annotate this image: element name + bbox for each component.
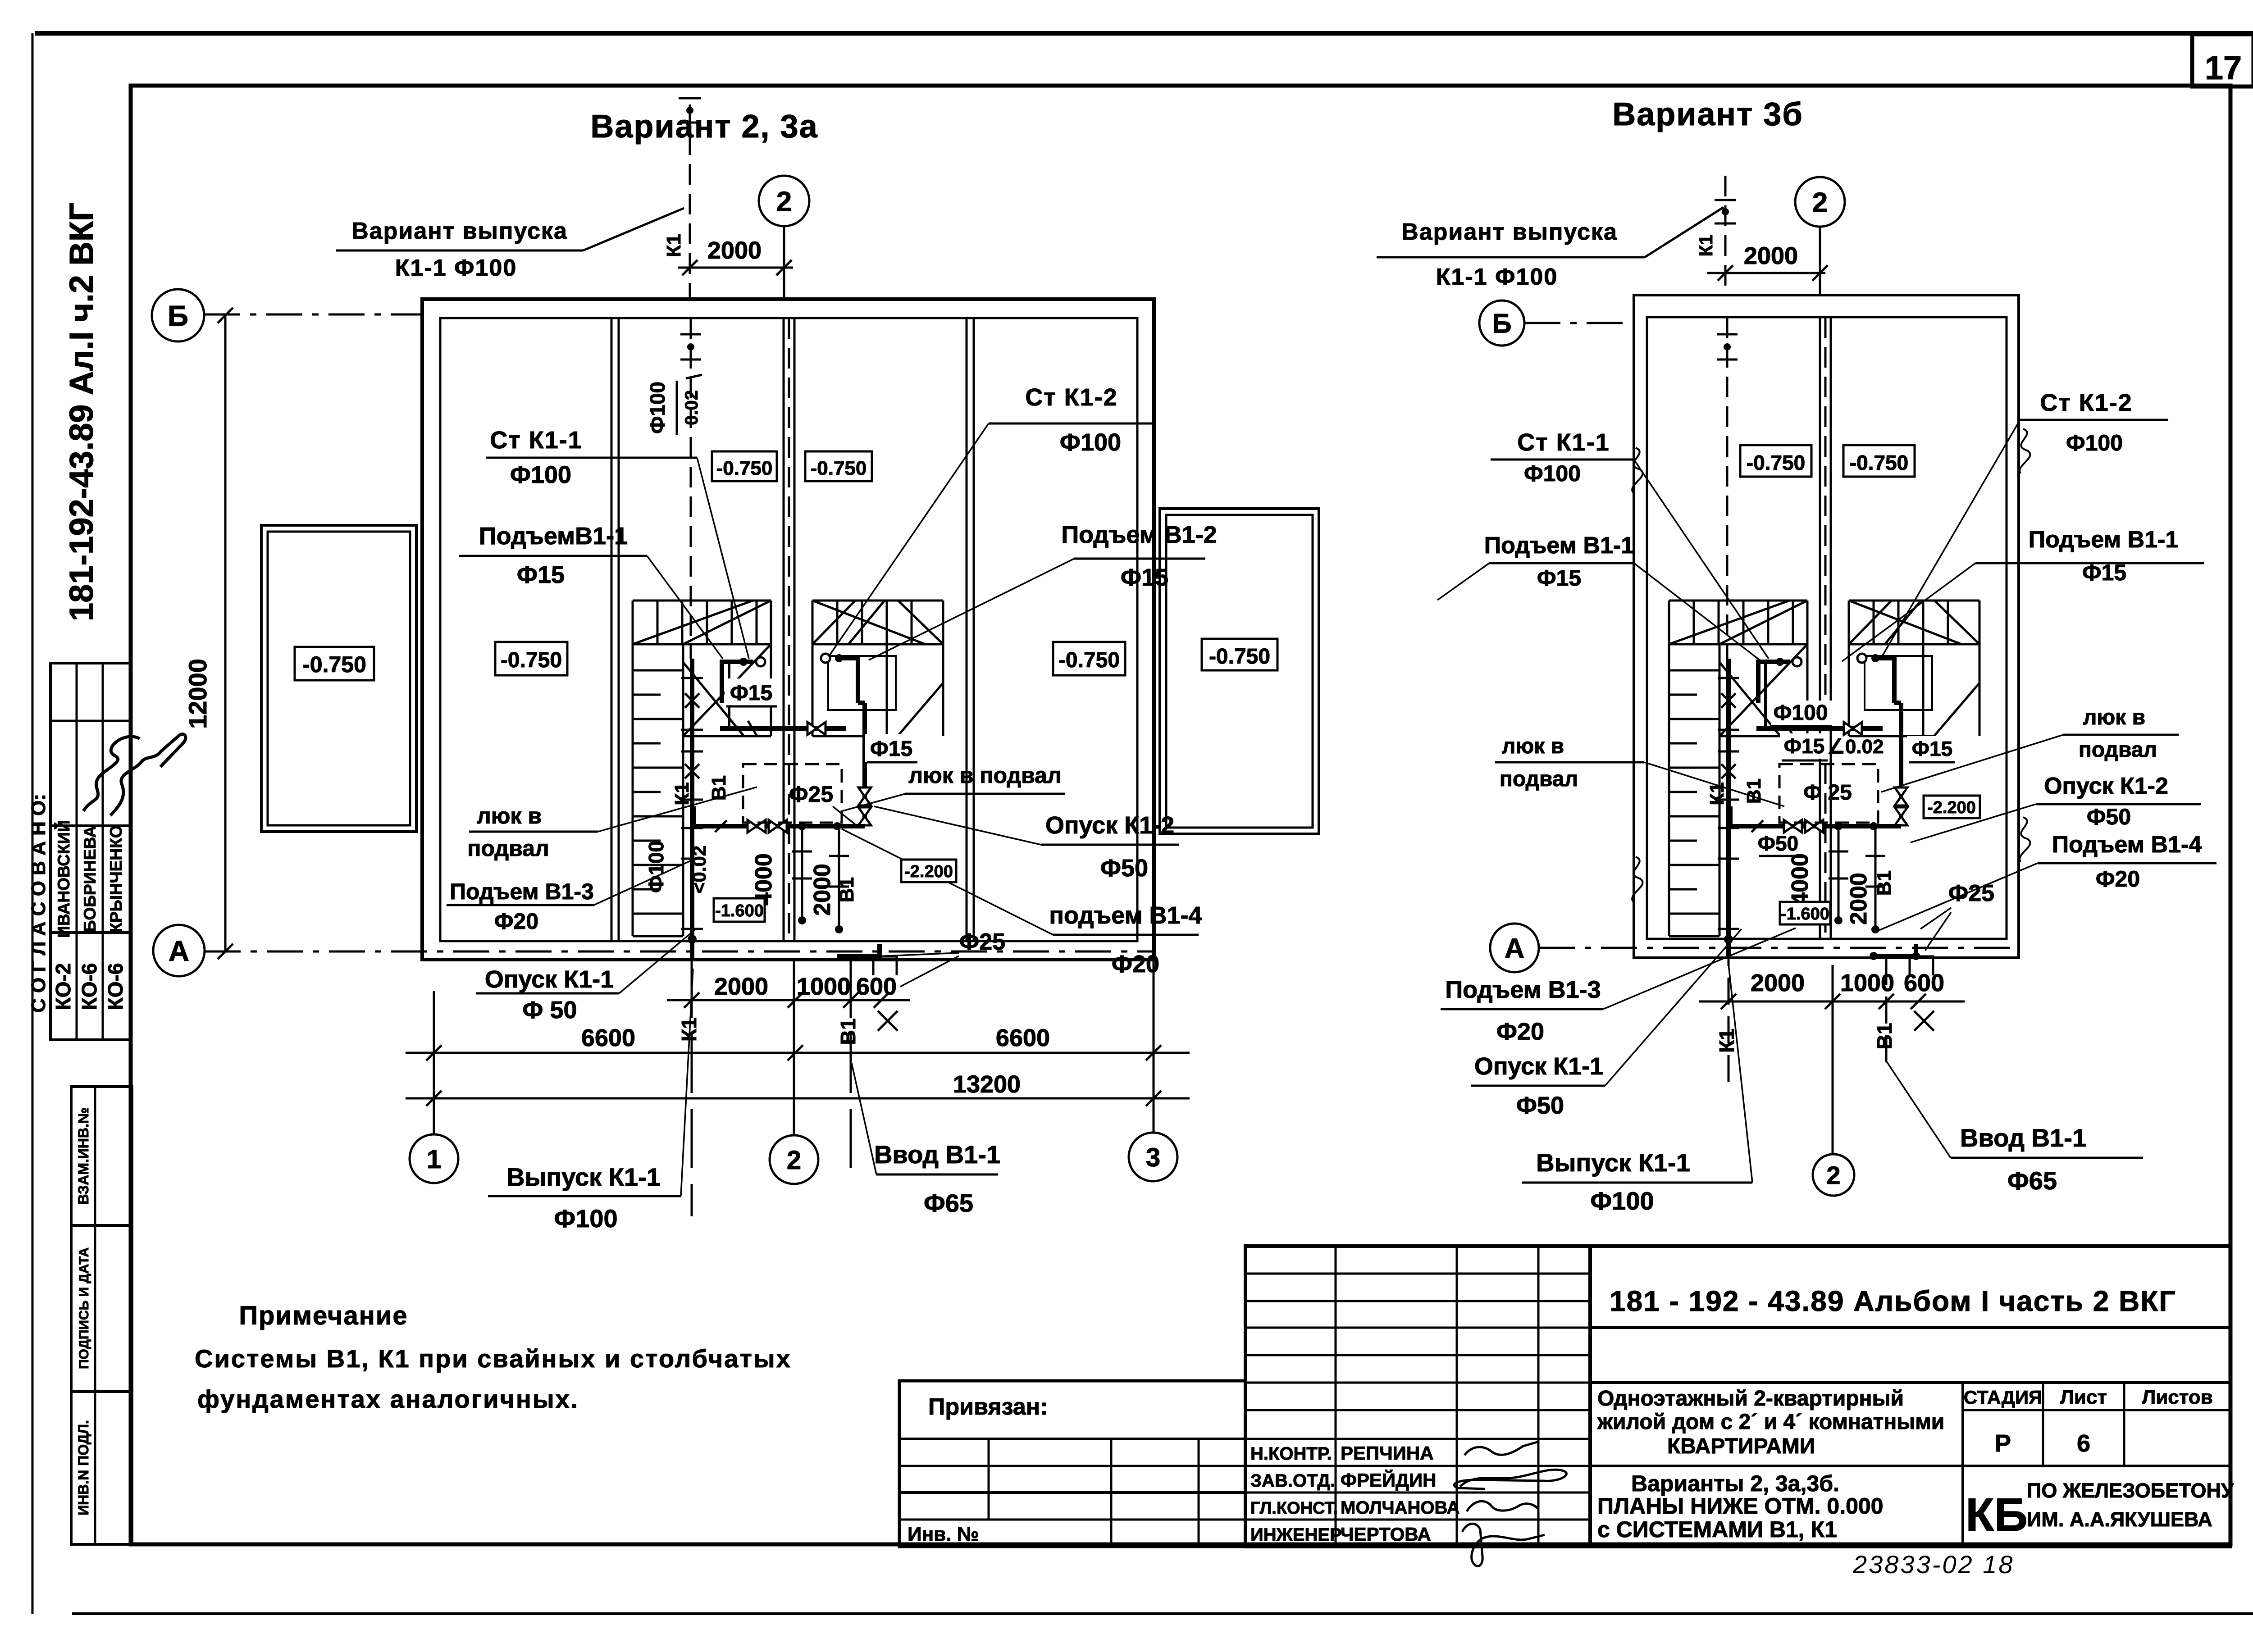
svg-text:600: 600 <box>1904 969 1944 997</box>
svg-text:фундаментах аналогичных.: фундаментах аналогичных. <box>197 1385 579 1413</box>
svg-text:Ф15: Ф15 <box>1784 734 1824 758</box>
svg-text:Ф15: Ф15 <box>517 561 565 588</box>
svg-text:А: А <box>169 935 189 967</box>
svg-text:Подъем В1-1: Подъем В1-1 <box>2029 527 2179 553</box>
svg-text:Варианты 2, 3а,3б.: Варианты 2, 3а,3б. <box>1631 1471 1839 1496</box>
svg-text:В1: В1 <box>708 775 730 801</box>
svg-text:В1: В1 <box>1873 870 1895 896</box>
svg-text:СТАДИЯ: СТАДИЯ <box>1964 1387 2042 1408</box>
svg-text:подъем В1-4: подъем В1-4 <box>1049 902 1202 929</box>
svg-text:Ф25: Ф25 <box>789 782 833 807</box>
podpis i data box <box>71 1225 132 1392</box>
svg-text:Н.КОНТР.: Н.КОНТР. <box>1250 1444 1332 1464</box>
K1 riser pipe <box>690 659 694 958</box>
left porch level box <box>295 647 374 680</box>
svg-text:600: 600 <box>856 973 897 1000</box>
stair cut corner <box>1934 683 1979 736</box>
svg-text:КВАРТИРАМИ: КВАРТИРАМИ <box>1667 1434 1815 1458</box>
svg-text:Опуск К1-1: Опуск К1-1 <box>485 966 614 993</box>
rp dim line 2000-1000-600 <box>1699 1001 1965 1003</box>
svg-text:1000: 1000 <box>797 973 851 1000</box>
level -1.600 box <box>714 898 765 922</box>
svg-text:РЕПЧИНА: РЕПЧИНА <box>1341 1443 1434 1464</box>
svg-text:Б: Б <box>1492 309 1511 339</box>
stair treads left flight <box>633 669 683 672</box>
svg-text:ПО ЖЕЛЕЗОБЕТОНУ: ПО ЖЕЛЕЗОБЕТОНУ <box>2027 1479 2234 1502</box>
svg-text:Ф25: Ф25 <box>959 929 1005 955</box>
svg-text:Ф20: Ф20 <box>1112 951 1159 978</box>
svg-text:К1: К1 <box>671 782 693 805</box>
svg-text:Вариант выпуска: Вариант выпуска <box>1401 219 1618 245</box>
svg-text:ИВАНОВСКИЙ: ИВАНОВСКИЙ <box>54 820 73 938</box>
svg-text:КО-6: КО-6 <box>104 963 127 1010</box>
right plan outer wall <box>1634 295 2019 958</box>
svg-text:с СИСТЕМАМИ В1, К1: с СИСТЕМАМИ В1, К1 <box>1597 1517 1837 1542</box>
svg-text:∠0.02: ∠0.02 <box>1827 736 1884 758</box>
rp K1 outlet below <box>1728 939 1730 1092</box>
svg-text:Ввод В1-1: Ввод В1-1 <box>874 1140 1000 1169</box>
svg-text:<0.02: <0.02 <box>689 846 710 893</box>
right plan F15 label left <box>1780 733 1829 759</box>
stair treads <box>1873 601 1875 644</box>
V1-3 V1-4 risers down <box>801 826 803 919</box>
svg-text:-0.750: -0.750 <box>811 457 867 479</box>
dim line 2000-1000-600 left plan <box>667 999 910 1001</box>
svg-text:Ф20: Ф20 <box>1496 1018 1544 1045</box>
svg-text:Ф65: Ф65 <box>2007 1166 2057 1195</box>
svg-text:К1: К1 <box>1695 235 1716 257</box>
svg-text:2000: 2000 <box>714 973 768 1000</box>
svg-text:Ф15: Ф15 <box>1121 564 1168 591</box>
svg-text:ГЛ.КОНСТ.: ГЛ.КОНСТ. <box>1250 1499 1338 1518</box>
rp axis circle 2 bottom <box>1813 1154 1854 1196</box>
right stair V1 point <box>1857 654 1866 663</box>
svg-text:Ф65: Ф65 <box>924 1189 973 1217</box>
axis circle A right plan <box>1490 924 1539 972</box>
K1 riser pipe <box>1726 659 1731 958</box>
svg-text:подвал: подвал <box>2079 738 2157 762</box>
axis circle 2 top left plan <box>759 176 809 226</box>
dim 12000 vertical <box>224 315 227 951</box>
svg-text:Ф100: Ф100 <box>1060 429 1121 456</box>
V1 riser at stair <box>756 657 765 666</box>
svg-text:2: 2 <box>776 186 792 217</box>
svg-text:Ф100: Ф100 <box>644 841 668 893</box>
right plan -1.600 box <box>1780 902 1830 924</box>
axis ext line 2 <box>793 960 795 1135</box>
svg-text:В1: В1 <box>836 877 858 902</box>
svg-text:1: 1 <box>427 1145 441 1174</box>
svg-text:Примечание: Примечание <box>239 1301 408 1330</box>
svg-text:Ф 25: Ф 25 <box>1803 781 1852 805</box>
level box center left <box>712 451 777 481</box>
title block central table <box>1245 1246 1590 1547</box>
svg-text:Б: Б <box>168 300 188 332</box>
svg-text:Инв. №: Инв. № <box>908 1523 979 1545</box>
right stair V1 point <box>821 654 830 663</box>
stair block left flight outline <box>633 600 771 602</box>
svg-text:17: 17 <box>2205 49 2242 86</box>
svg-text:Выпуск К1-1: Выпуск К1-1 <box>1536 1148 1690 1177</box>
svg-text:ИНЖЕНЕР: ИНЖЕНЕР <box>1250 1525 1342 1545</box>
svg-text:Выпуск К1-1: Выпуск К1-1 <box>506 1163 661 1191</box>
svg-text:2000: 2000 <box>809 864 835 916</box>
interior wall 3 <box>966 318 968 941</box>
svg-text:подвал: подвал <box>467 836 549 861</box>
svg-text:Ф100: Ф100 <box>1773 701 1828 725</box>
svg-text:Подъем В1-3: Подъем В1-3 <box>1445 976 1601 1003</box>
svg-text:ФРЕЙДИН: ФРЕЙДИН <box>1341 1469 1437 1491</box>
svg-text:3: 3 <box>1146 1143 1160 1172</box>
stair block right outline <box>812 600 943 602</box>
svg-text:Подъем В1-4: Подъем В1-4 <box>2052 832 2202 858</box>
axis line A left plan <box>205 951 1154 953</box>
svg-text:Ф20: Ф20 <box>2096 866 2140 892</box>
rp axis2 ext line <box>1832 965 1834 1154</box>
svg-text:Ф100: Ф100 <box>646 382 669 434</box>
svg-text:Ф50: Ф50 <box>1100 855 1148 882</box>
svg-text:ПЛАНЫ НИЖЕ ОТМ. 0.000: ПЛАНЫ НИЖЕ ОТМ. 0.000 <box>1597 1493 1884 1519</box>
interior wall 1 <box>611 318 613 941</box>
title block right part <box>1590 1246 2230 1547</box>
svg-text:181 - 192 - 43.89 Альбом I ча: 181 - 192 - 43.89 Альбом I часть 2 ВКГ <box>1610 1285 2176 1317</box>
stair treads left flight <box>1669 669 1719 672</box>
right plan interior wall 2 <box>1819 317 1821 939</box>
svg-text:ИМ. А.А.ЯКУШЕВА: ИМ. А.А.ЯКУШЕВА <box>2027 1508 2212 1531</box>
stair diagonal cut <box>1669 601 1789 644</box>
axis circle 1 bottom <box>410 1134 458 1183</box>
svg-text:КБ: КБ <box>1966 1489 2028 1541</box>
svg-text:В1: В1 <box>1873 1023 1896 1050</box>
right plan break marks <box>1632 448 1642 492</box>
svg-text:люк в: люк в <box>477 803 542 828</box>
svg-text:ИНВ.N ПОДЛ.: ИНВ.N ПОДЛ. <box>75 1420 91 1515</box>
K1 outlet line below <box>691 960 693 1216</box>
svg-text:подвал: подвал <box>1500 767 1578 791</box>
svg-text:Ф15: Ф15 <box>1537 565 1581 591</box>
bottom distribution pipe <box>694 824 865 828</box>
svg-text:Ф100: Ф100 <box>510 461 571 488</box>
svg-text:0.02: 0.02 <box>682 390 702 425</box>
svg-text:Вариант 2, 3а: Вариант 2, 3а <box>590 109 818 145</box>
axis circle 3 bottom <box>1129 1133 1177 1181</box>
svg-text:КО-6: КО-6 <box>78 963 101 1010</box>
signature squiggle 2 <box>110 734 186 815</box>
svg-text:6600: 6600 <box>581 1024 635 1051</box>
svg-text:23833-02 18: 23833-02 18 <box>1852 1550 2015 1579</box>
sheet number box 17 <box>2192 34 2253 86</box>
svg-text:ЧЕРТОВА: ЧЕРТОВА <box>1341 1524 1431 1545</box>
dim 2000 top right plan <box>1707 272 1825 274</box>
svg-text:Вариант выпуска: Вариант выпуска <box>351 218 568 244</box>
svg-text:ВЗАМ.ИНВ.№: ВЗАМ.ИНВ.№ <box>75 1107 91 1204</box>
svg-text:2000: 2000 <box>1751 969 1805 997</box>
K1 outlet dashed line top <box>689 105 691 299</box>
svg-text:Ф 50: Ф 50 <box>522 997 577 1024</box>
svg-text:Вариант 3б: Вариант 3б <box>1612 96 1803 132</box>
svg-text:2000: 2000 <box>1846 873 1872 925</box>
svg-text:люк в: люк в <box>1502 734 1564 758</box>
dim line 13200 <box>406 1097 1190 1100</box>
stair landing box <box>1865 656 1932 710</box>
svg-text:Системы В1, К1 при свайных и: Системы В1, К1 при свайных и столбчатых <box>195 1344 792 1373</box>
svg-text:БОБРИНЕВА: БОБРИНЕВА <box>81 826 99 932</box>
F15 pipe run <box>720 726 846 731</box>
svg-text:181-192-43.89 Ал.I ч.2 ВКГ: 181-192-43.89 Ал.I ч.2 ВКГ <box>63 202 100 621</box>
V1-3 V1-4 risers down <box>1838 826 1840 919</box>
svg-text:Подъем В1-3: Подъем В1-3 <box>450 879 594 904</box>
interior wall 2 <box>783 318 785 941</box>
lower jog pipe <box>837 954 880 958</box>
svg-text:Одноэтажный 2-квартирный: Одноэтажный 2-квартирный <box>1597 1387 1904 1411</box>
svg-text:люк в: люк в <box>2083 705 2145 729</box>
left plan inner wall <box>440 318 1137 941</box>
svg-text:Опуск К1-1: Опуск К1-1 <box>1474 1053 1603 1080</box>
stair cut corner <box>898 683 943 736</box>
stair block left flight outline <box>1669 600 1807 602</box>
F15 pipe run <box>1756 726 1883 731</box>
svg-text:-1.600: -1.600 <box>715 901 764 920</box>
svg-text:Ф15: Ф15 <box>870 737 912 761</box>
svg-text:Ф100: Ф100 <box>2066 430 2123 455</box>
axis circle A left plan <box>153 925 205 976</box>
axis line B left plan <box>204 314 422 316</box>
stair treads <box>836 601 839 644</box>
level -2.200 box <box>901 860 956 882</box>
svg-text:Ф20: Ф20 <box>494 909 538 934</box>
svg-text:Ф25: Ф25 <box>1948 880 1994 906</box>
svg-text:-0.750: -0.750 <box>501 648 562 672</box>
svg-text:ПОДПИСЬ И ДАТА: ПОДПИСЬ И ДАТА <box>77 1247 91 1369</box>
K1 stack dashed inside <box>690 318 692 659</box>
axis circle 2 top right plan <box>1795 177 1845 227</box>
K1 riser ticks <box>685 693 699 708</box>
svg-text:Листов: Листов <box>2142 1386 2212 1408</box>
svg-text:6: 6 <box>2077 1430 2090 1457</box>
vzam inv box <box>71 1087 132 1225</box>
svg-text:13200: 13200 <box>953 1071 1021 1098</box>
svg-text:А: А <box>1505 933 1525 964</box>
svg-text:-0.750: -0.750 <box>1209 645 1270 669</box>
svg-text:2: 2 <box>1826 1161 1840 1189</box>
dim 2000 top left plan <box>678 267 793 269</box>
svg-text:Ф50: Ф50 <box>2087 804 2131 829</box>
axis 2 dashed inside left plan <box>788 318 790 941</box>
dim line 6600 6600 <box>406 1052 1190 1054</box>
svg-text:К1-1 Ф100: К1-1 Ф100 <box>395 255 517 281</box>
K1 outlet dashed right plan <box>1724 176 1727 295</box>
stair block right outline <box>1849 600 1979 602</box>
level box center right <box>805 451 872 481</box>
outer border top <box>35 31 2253 36</box>
outer border bottom <box>72 1612 2253 1615</box>
svg-text:-0.750: -0.750 <box>1747 451 1805 474</box>
V1 inlet line below <box>850 960 852 1176</box>
svg-text:2000: 2000 <box>1744 242 1798 269</box>
stair treads top strip <box>1693 601 1695 644</box>
level box room right <box>1053 642 1125 675</box>
svg-text:Ф100: Ф100 <box>1590 1187 1654 1215</box>
signatures scribbles <box>1464 1442 1539 1455</box>
svg-text:К1: К1 <box>1715 1029 1738 1053</box>
svg-text:ПодъемВ1-1: ПодъемВ1-1 <box>479 523 628 550</box>
svg-text:4000: 4000 <box>1787 853 1813 906</box>
svg-text:6600: 6600 <box>996 1024 1050 1051</box>
svg-text:-0.750: -0.750 <box>1850 451 1908 474</box>
svg-text:Подъем В1-2: Подъем В1-2 <box>1061 521 1217 548</box>
stair treads top strip <box>657 601 659 644</box>
rp lower jog dots <box>1870 952 1878 960</box>
svg-text:КРЫНЧЕНКО: КРЫНЧЕНКО <box>107 825 125 933</box>
svg-text:-0.750: -0.750 <box>1058 648 1120 672</box>
outer border left <box>32 33 34 1614</box>
axis ext line 3 <box>1153 960 1155 1133</box>
svg-text:В1: В1 <box>836 1019 860 1045</box>
F15 boxed label 1 <box>725 678 779 706</box>
svg-text:МОЛЧАНОВА: МОЛЧАНОВА <box>1341 1498 1459 1518</box>
svg-text:Опуск К1-2: Опуск К1-2 <box>2044 773 2168 799</box>
right plan F100 pipe label <box>1771 701 1834 725</box>
svg-text:Лист: Лист <box>2060 1386 2107 1408</box>
svg-text:Р: Р <box>1995 1430 2011 1457</box>
svg-text:Ф50: Ф50 <box>1516 1092 1564 1119</box>
right plan inner wall <box>1647 317 2007 939</box>
right plan -2.200 box <box>1924 796 1980 818</box>
svg-text:2: 2 <box>1812 187 1828 218</box>
stair landing box <box>828 656 896 710</box>
right plan level boxes <box>1740 445 1811 477</box>
privyazan table <box>899 1381 1245 1547</box>
svg-text:Ст К1-1: Ст К1-1 <box>490 427 582 454</box>
svg-text:Ф15: Ф15 <box>730 681 772 705</box>
V1 vertical with valves <box>1899 703 1903 826</box>
svg-text:Ф100: Ф100 <box>1524 461 1581 486</box>
svg-text:люк в подвал: люк в подвал <box>908 763 1061 788</box>
approval stamp table <box>50 663 131 1040</box>
svg-text:-1.600: -1.600 <box>1781 905 1829 924</box>
svg-text:жилой дом с 2´ и 4´ комнатными: жилой дом с 2´ и 4´ комнатными <box>1597 1410 1944 1434</box>
level box room left <box>495 642 567 675</box>
svg-text:Опуск К1-2: Опуск К1-2 <box>1045 812 1174 839</box>
album cell <box>1590 1326 2230 1329</box>
V1 riser at stair <box>1792 657 1801 666</box>
F15 boxed label 2 <box>865 734 919 762</box>
svg-text:КО-2: КО-2 <box>51 963 75 1010</box>
lower jog pipe <box>1874 954 1916 958</box>
svg-text:2000: 2000 <box>707 237 762 264</box>
svg-text:Ф15: Ф15 <box>2082 560 2126 585</box>
svg-text:Ст К1-1: Ст К1-1 <box>1517 429 1610 456</box>
svg-text:-0.750: -0.750 <box>716 457 773 479</box>
stair diagonal cut <box>633 601 753 644</box>
left plan outer wall <box>422 299 1154 960</box>
right porch level box <box>1202 639 1277 670</box>
signature squiggle 1 <box>83 737 140 811</box>
inv n podl box <box>71 1392 132 1544</box>
svg-text:2: 2 <box>787 1146 801 1175</box>
dashed hatch opening <box>1779 764 1878 823</box>
svg-text:С О Г Л А С О В А Н О:: С О Г Л А С О В А Н О: <box>27 794 50 1013</box>
bottom distribution pipe <box>1730 824 1901 828</box>
svg-text:Ф100: Ф100 <box>554 1204 617 1233</box>
right plan F15 label right <box>1907 736 1957 761</box>
rp V1 below <box>1885 958 1888 1071</box>
V1 vertical with valves <box>862 703 867 826</box>
right plan K1 stack dashed <box>1726 317 1729 659</box>
svg-text:1000: 1000 <box>1840 969 1894 997</box>
axis circle B left plan <box>152 289 204 341</box>
svg-text:12000: 12000 <box>183 659 212 729</box>
svg-text:Ст К1-2: Ст К1-2 <box>1025 384 1117 411</box>
svg-text:Подъем В1-1: Подъем В1-1 <box>1484 532 1634 559</box>
axis circle 2 bottom left plan <box>770 1135 818 1184</box>
description cell <box>1961 1383 1964 1547</box>
stadia list listov header <box>1963 1409 2230 1411</box>
svg-text:-2.200: -2.200 <box>904 862 953 881</box>
left porch <box>261 525 416 832</box>
axis ext line 1 <box>433 991 435 1134</box>
svg-text:Привязан:: Привязан: <box>928 1394 1048 1420</box>
leader to K1 outlet <box>583 208 684 250</box>
svg-text:Ввод В1-1: Ввод В1-1 <box>1960 1124 2086 1152</box>
dashed hatch opening <box>743 764 842 823</box>
right porch <box>1160 509 1319 834</box>
svg-text:К1-1 Ф100: К1-1 Ф100 <box>1436 264 1558 290</box>
svg-text:К1: К1 <box>663 234 685 257</box>
svg-text:-0.750: -0.750 <box>302 652 366 677</box>
svg-text:Ф15: Ф15 <box>1912 737 1952 760</box>
svg-text:Ст К1-2: Ст К1-2 <box>2040 389 2132 416</box>
K1 riser ticks <box>1721 693 1736 708</box>
svg-text:Ф50: Ф50 <box>1758 832 1798 855</box>
axis circle B right plan <box>1479 300 1524 346</box>
svg-text:ЗАВ.ОТД.: ЗАВ.ОТД. <box>1250 1471 1335 1491</box>
svg-text:-2.200: -2.200 <box>1927 798 1976 817</box>
